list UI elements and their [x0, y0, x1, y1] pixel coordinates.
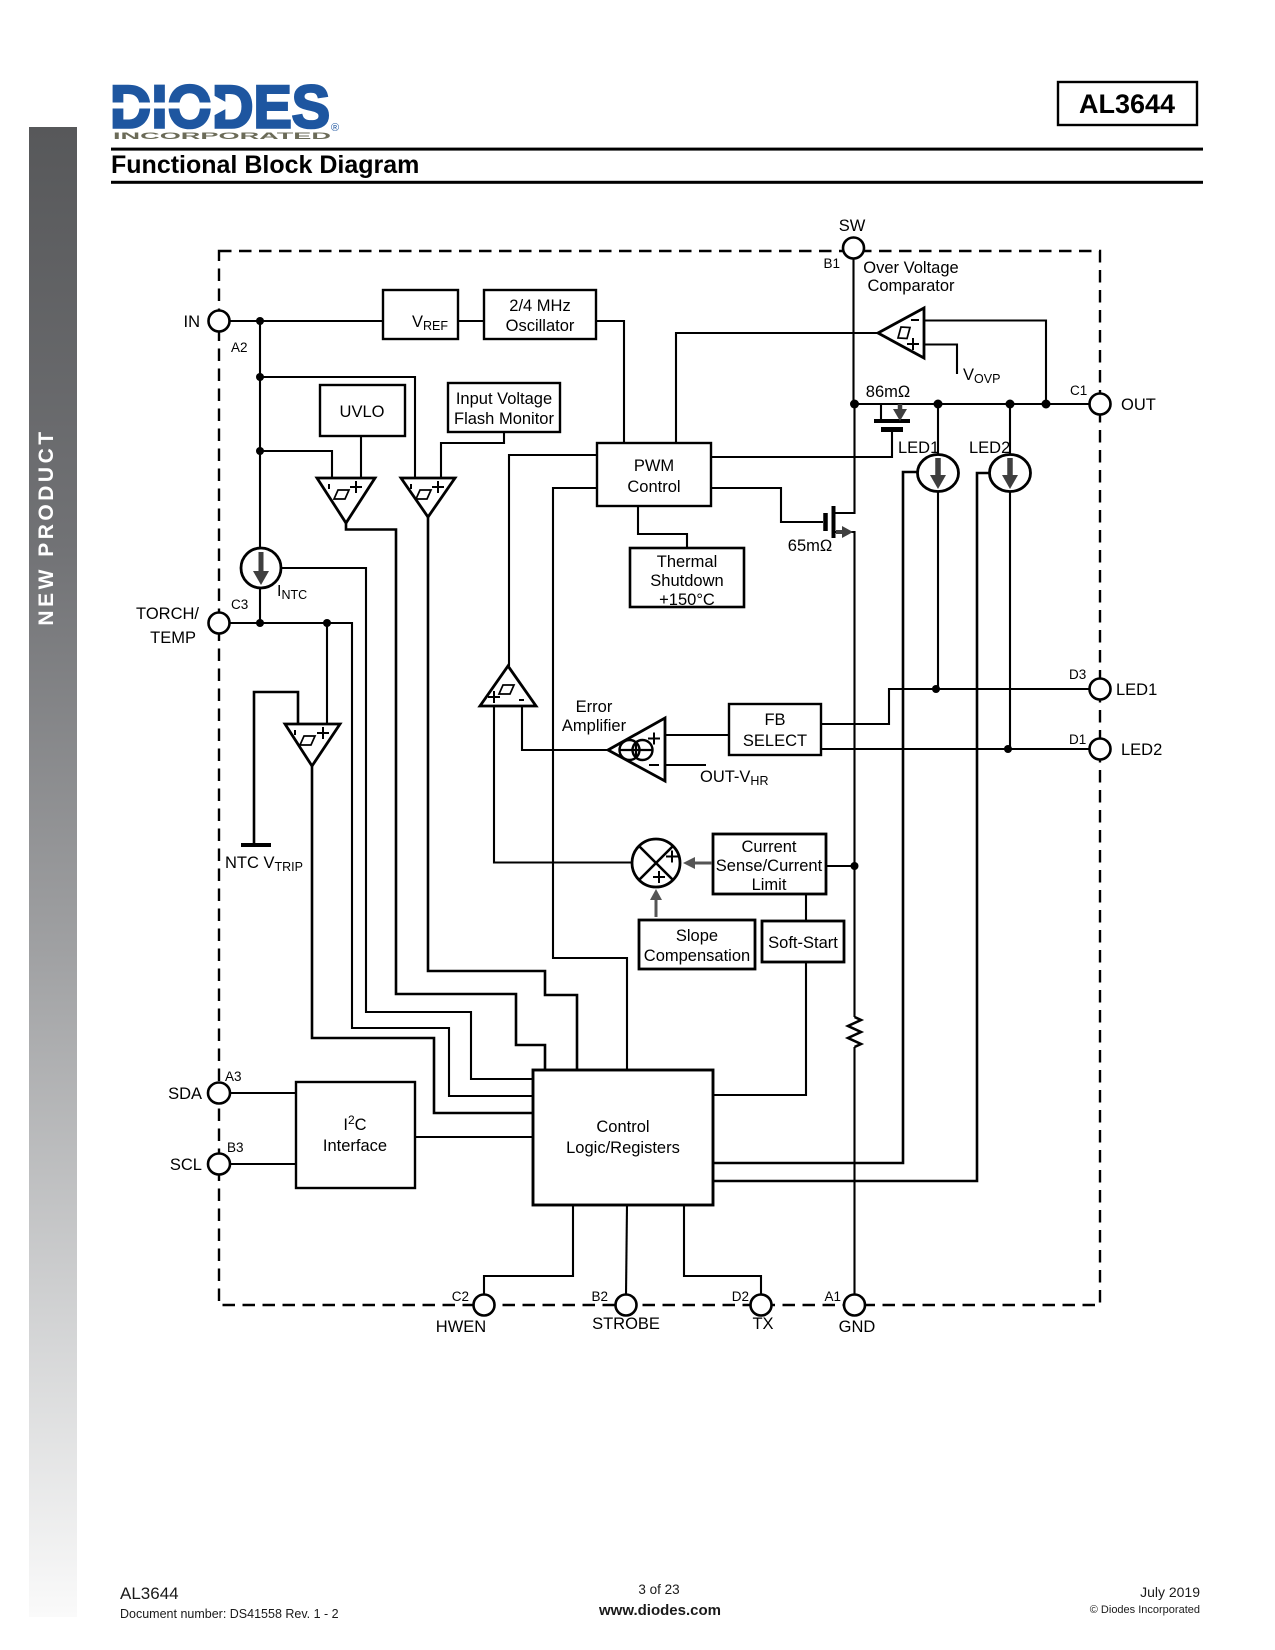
wire UVLO reference to comparator U2 plus — [360, 436, 362, 478]
svg-text:OUT-VHR: OUT-VHR — [700, 768, 768, 788]
svg-text:IN: IN — [184, 313, 201, 331]
svg-text:INTC: INTC — [277, 583, 307, 602]
wire PWM Control to comparator U5 output — [509, 455, 597, 666]
svg-text:July 2019: July 2019 — [1140, 1584, 1200, 1600]
wire LED1 source to LED1 pin node — [937, 491, 939, 689]
node LED1 pin junction — [932, 685, 940, 693]
block slope compensation — [639, 920, 755, 969]
wire I2C interface to control logic — [415, 1136, 533, 1138]
svg-text:C3: C3 — [231, 597, 248, 612]
pin SDA (A3) — [208, 1083, 230, 1104]
ground NTC VTRIP — [241, 843, 271, 847]
transistor 86mohm PMOS — [874, 404, 910, 430]
comparator U2 (UVLO) — [317, 478, 375, 523]
pin SCL (B3) — [208, 1154, 230, 1175]
svg-text:Functional Block Diagram: Functional Block Diagram — [111, 151, 419, 179]
svg-text:Control: Control — [596, 1118, 649, 1136]
svg-text:2/4 MHz: 2/4 MHz — [509, 297, 570, 315]
svg-text:TX: TX — [752, 1315, 773, 1333]
svg-text:A3: A3 — [225, 1069, 242, 1084]
svg-text:Document number: DS41558 Rev.: Document number: DS41558 Rev. 1 - 2 — [120, 1607, 339, 1621]
svg-text:NEW PRODUCT: NEW PRODUCT — [35, 428, 58, 625]
block UVLO — [320, 385, 405, 436]
node OUT LED2 junction — [1006, 400, 1015, 409]
svg-text:SDA: SDA — [168, 1085, 202, 1103]
svg-text:Over Voltage: Over Voltage — [863, 259, 958, 277]
pin GND (A1) — [844, 1295, 865, 1316]
wire SDA pin to I2C interface — [229, 1092, 296, 1094]
current source LED2 — [990, 455, 1031, 492]
wire soft-start to control logic — [713, 962, 806, 1095]
svg-text:GND: GND — [839, 1318, 876, 1336]
title rule top — [111, 148, 1203, 151]
svg-text:D2: D2 — [732, 1289, 749, 1304]
pin STROBE (B2) — [616, 1295, 637, 1316]
svg-text:+150°C: +150°C — [659, 591, 715, 609]
part number box AL3644 — [1058, 82, 1197, 125]
svg-text:LED2: LED2 — [1121, 741, 1162, 759]
node current sense resistor junction — [851, 862, 859, 870]
svg-text:Error: Error — [576, 698, 613, 716]
node LED2 pin junction — [1004, 745, 1012, 753]
pin IN (A2) — [209, 311, 230, 332]
wire SCL pin to I2C interface — [229, 1163, 296, 1165]
wire NTC comparator output to control logic — [312, 766, 533, 1113]
wire PWM Control to thermal shutdown — [638, 506, 687, 548]
svg-text:Compensation: Compensation — [644, 947, 750, 965]
pin SW (B1) — [843, 238, 864, 259]
svg-text:Slope: Slope — [676, 927, 718, 945]
wire INTC tap to control logic — [281, 568, 533, 1079]
wire VREF to oscillator — [458, 320, 484, 322]
svg-text:HWEN: HWEN — [436, 1318, 486, 1336]
svg-text:UVLO: UVLO — [340, 403, 385, 421]
wire LED2 gate control from control logic — [713, 473, 990, 1181]
svg-text:Interface: Interface — [323, 1137, 387, 1155]
wire LED2 pin to FB SELECT — [821, 748, 1089, 750]
svg-text:LED1: LED1 — [898, 439, 939, 457]
wire IN bus vertical — [259, 321, 261, 548]
svg-text:SCL: SCL — [170, 1156, 202, 1174]
svg-text:Sense/Current: Sense/Current — [716, 857, 823, 875]
wire 86mohm gate to PWM Control — [711, 430, 892, 457]
wire error amplifier output to comparator U5 minus — [522, 706, 608, 750]
resistor current sense — [848, 1017, 861, 1047]
node IN sense junction lower — [256, 447, 264, 455]
svg-text:STROBE: STROBE — [592, 1315, 660, 1333]
comparator U5 (PWM comparator) — [480, 666, 536, 706]
node SW-OUT junction — [850, 400, 859, 409]
svg-text:65mΩ: 65mΩ — [788, 537, 832, 555]
block current sense / current limit — [713, 834, 826, 894]
wire OVP comparator minus feedback from OUT — [924, 321, 1046, 405]
wire error amplifier minus OUT-VHR stub — [665, 764, 706, 766]
wire 65mohm gate to PWM Control — [711, 488, 823, 522]
pin TORCH/TEMP (C3) — [209, 613, 230, 634]
svg-text:B2: B2 — [591, 1289, 608, 1304]
wire IN sense to comparator U3 minus — [260, 377, 415, 478]
node OUT OVP feedback junction — [1042, 400, 1051, 409]
svg-text:LED1: LED1 — [1116, 681, 1157, 699]
current source LED1 — [918, 455, 959, 492]
wire current sense to sense resistor node — [826, 865, 855, 867]
pin TX (D2) — [751, 1295, 772, 1316]
svg-text:© Diodes Incorporated: © Diodes Incorporated — [1090, 1604, 1200, 1616]
svg-text:OUT: OUT — [1121, 396, 1156, 414]
node INTC-TORCH junction — [256, 619, 264, 627]
svg-text:Flash Monitor: Flash Monitor — [454, 410, 554, 428]
pin HWEN (C2) — [474, 1295, 495, 1316]
wire NTC comparator minus to NTC VTRIP — [254, 692, 298, 845]
svg-text:Oscillator: Oscillator — [506, 317, 575, 335]
wire LED1 pin to FB SELECT — [821, 689, 1089, 724]
wire switch node to 65mohm drain — [833, 404, 855, 513]
wire PWM Control to control logic — [553, 488, 627, 1070]
block input voltage flash monitor — [448, 383, 560, 432]
svg-text:www.diodes.com: www.diodes.com — [598, 1602, 721, 1619]
svg-text:AL3644: AL3644 — [120, 1584, 179, 1603]
wire current sense to soft-start — [805, 894, 807, 921]
node IN/VREF junction — [256, 317, 264, 325]
summing node — [632, 839, 680, 887]
svg-text:TEMP: TEMP — [150, 629, 196, 647]
current source INTC — [241, 548, 281, 588]
wire OVP comparator output to PWM Control — [676, 333, 878, 443]
svg-text:INCORPORATED: INCORPORATED — [113, 131, 331, 142]
svg-text:®: ® — [331, 122, 339, 134]
wire comparator U3 output to control logic — [428, 517, 577, 1070]
svg-text:TORCH/: TORCH/ — [136, 605, 199, 623]
svg-text:Control: Control — [627, 478, 680, 496]
svg-text:SELECT: SELECT — [743, 732, 807, 750]
wire oscillator output to PWM Control top — [596, 321, 624, 443]
block 2/4 MHz oscillator — [484, 290, 596, 339]
arrow current sense to summing node — [683, 857, 712, 869]
svg-text:86mΩ: 86mΩ — [866, 383, 910, 401]
svg-text:Comparator: Comparator — [867, 277, 955, 295]
title rule bottom — [111, 181, 1203, 184]
svg-text:Logic/Registers: Logic/Registers — [566, 1139, 680, 1157]
svg-text:3 of 23: 3 of 23 — [638, 1582, 679, 1597]
wire comparator U2 output to control logic — [346, 523, 545, 1070]
svg-text:NTC VTRIP: NTC VTRIP — [225, 854, 303, 874]
comparator U1 over voltage — [878, 308, 924, 358]
chip boundary dashed border — [219, 251, 1100, 1305]
svg-text:Soft-Start: Soft-Start — [768, 934, 838, 952]
wire 86mohm source bend — [855, 404, 882, 419]
wire LED2 source top to OUT rail — [1009, 404, 1011, 455]
svg-text:PWM: PWM — [634, 457, 674, 475]
wire LED1 gate control from control logic — [713, 472, 918, 1163]
svg-text:B3: B3 — [227, 1140, 244, 1155]
svg-text:I2C: I2C — [343, 1113, 366, 1134]
wire control logic to STROBE pin — [626, 1205, 627, 1295]
arrow slope compensation to summing node — [650, 889, 662, 917]
svg-text:Shutdown: Shutdown — [650, 572, 723, 590]
svg-text:Current: Current — [741, 838, 796, 856]
svg-text:LED2: LED2 — [969, 439, 1010, 457]
sidebar NEW PRODUCT banner — [29, 127, 77, 1617]
node TORCH NTC junction — [323, 619, 331, 627]
svg-text:C2: C2 — [452, 1289, 469, 1304]
wire LED2 source to LED2 pin node — [1009, 491, 1011, 749]
error amplifier U6 — [608, 718, 665, 781]
block PWM control — [597, 443, 711, 506]
wire control logic to HWEN pin — [484, 1205, 573, 1295]
wire flash monitor to comparator U3 plus — [441, 432, 504, 478]
svg-text:Amplifier: Amplifier — [562, 717, 627, 735]
node OUT LED1 junction — [934, 400, 943, 409]
node IN sense junction upper — [256, 373, 264, 381]
svg-text:D1: D1 — [1069, 732, 1086, 747]
wire IN pin to VREF — [229, 320, 383, 322]
svg-text:Limit: Limit — [752, 876, 787, 894]
logo DIODES Incorporated — [110, 74, 339, 143]
svg-text:A1: A1 — [824, 1289, 841, 1304]
pin LED1 (D3) — [1090, 679, 1111, 700]
wire TORCH/TEMP to control logic — [229, 623, 533, 1096]
svg-text:B1: B1 — [823, 256, 840, 271]
wire INTC source to TORCH node — [259, 588, 261, 623]
block thermal shutdown — [630, 548, 744, 607]
svg-text:C1: C1 — [1070, 383, 1087, 398]
svg-text:Thermal: Thermal — [657, 553, 718, 571]
svg-text:VOVP: VOVP — [963, 366, 1000, 386]
block control logic / registers — [533, 1070, 713, 1205]
svg-text:FB: FB — [764, 711, 785, 729]
wire LED1 source top to OUT rail — [937, 404, 939, 455]
wire SW pin to switch node — [852, 258, 854, 404]
wire 65mohm source to current sense resistor — [833, 532, 855, 1017]
wire TORCH node to NTC comparator plus — [326, 623, 328, 724]
footer — [120, 1582, 1200, 1621]
pin LED2 (D1) — [1090, 739, 1111, 760]
block VREF — [383, 290, 458, 339]
svg-text:D3: D3 — [1069, 667, 1086, 682]
pin OUT (C1) — [1090, 394, 1111, 415]
svg-text:A2: A2 — [231, 340, 248, 355]
wire OUT rail — [855, 403, 1090, 405]
svg-text:AL3644: AL3644 — [1079, 89, 1175, 119]
comparator U4 (NTC) — [285, 724, 340, 766]
wire OVP comparator plus to VOVP stub — [924, 345, 957, 375]
wire FB SELECT to error amplifier plus — [665, 734, 729, 736]
svg-text:SW: SW — [839, 217, 866, 235]
block soft-start — [762, 921, 844, 962]
wire current sense resistor to GND pin — [853, 1047, 855, 1295]
comparator U3 (flash monitor) — [401, 478, 455, 517]
svg-text:Input Voltage: Input Voltage — [456, 390, 552, 408]
wire summing node to comparator U5 plus — [494, 706, 631, 863]
transistor 65mohm NMOS — [826, 506, 854, 538]
block I2C interface — [296, 1082, 415, 1188]
wire control logic to TX pin — [684, 1205, 761, 1295]
wire IN sense to comparator U2 minus — [260, 451, 332, 478]
block FB select — [729, 704, 821, 755]
